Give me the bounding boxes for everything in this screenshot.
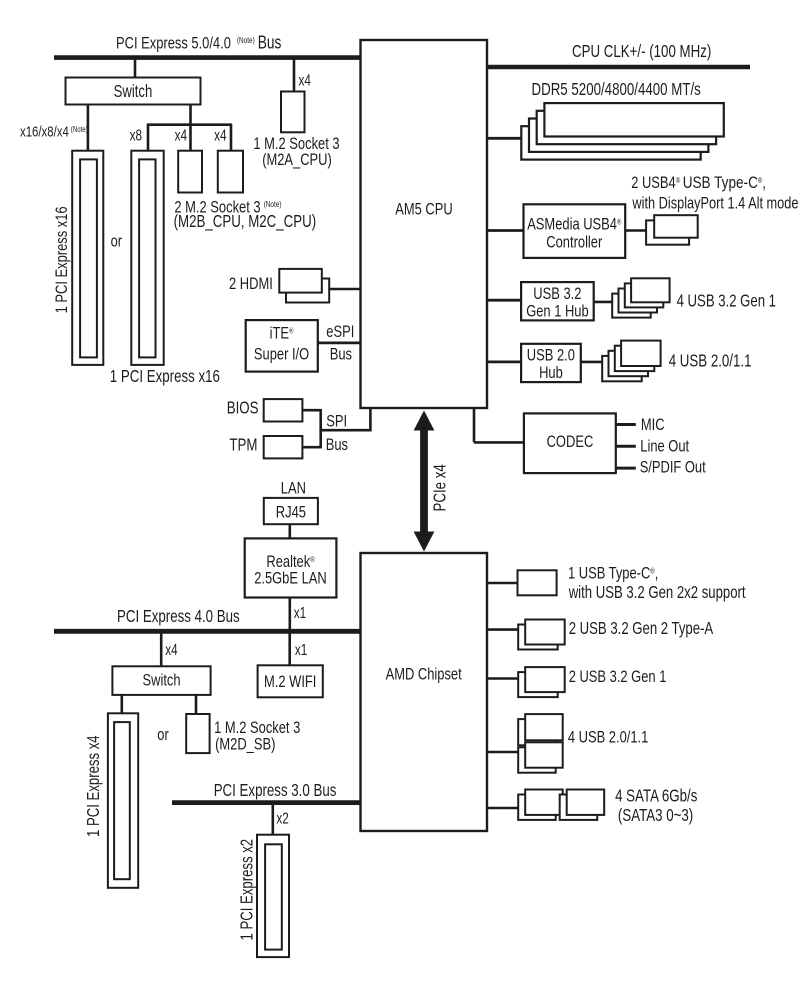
PCIe x2 slot outer — [257, 835, 289, 957]
svg-text:4 SATA 6Gb/s: 4 SATA 6Gb/s — [615, 786, 697, 806]
svg-text:USB 3.2: USB 3.2 — [533, 284, 581, 303]
svg-text:S/PDIF Out: S/PDIF Out — [640, 458, 706, 477]
svg-text:RJ45: RJ45 — [276, 503, 306, 522]
RJ45 box — [264, 498, 318, 524]
svg-text:x4: x4 — [175, 128, 188, 145]
wire chipset to SATA ports — [487, 807, 518, 810]
wire HDMI to CPU — [329, 288, 360, 291]
svg-text:MIC: MIC — [641, 415, 665, 434]
wire switch1 branch stem — [189, 105, 192, 127]
svg-text:Hub: Hub — [539, 363, 563, 382]
wire ASMedia to Type-C connectors — [625, 229, 646, 232]
switch box (upper) — [66, 78, 201, 105]
USB 3.2 Gen1 port back — [518, 672, 558, 697]
svg-text:iTE: iTE — [270, 323, 289, 342]
wire TPM to junction — [302, 446, 320, 449]
label 1 PCI Express x4 (vertical) — [83, 735, 103, 837]
svg-text:(SATA3 0~3): (SATA3 0~3) — [618, 805, 693, 825]
svg-text:Bus: Bus — [326, 435, 348, 454]
wire BIOS/TPM junction vertical — [319, 409, 322, 448]
wire SPI bus to CPU — [369, 408, 372, 432]
svg-text:2 USB 3.2 Gen 1: 2 USB 3.2 Gen 1 — [569, 667, 667, 686]
iTE Super I/O box — [246, 320, 318, 372]
label 1 PCI Express x2 (vertical) — [237, 839, 257, 941]
M.2 WIFI box — [258, 665, 323, 697]
svg-text:2 HDMI: 2 HDMI — [229, 274, 273, 293]
USB 3.2 Gen2 port back — [518, 625, 558, 650]
svg-text:,: , — [762, 173, 766, 192]
svg-text:x1: x1 — [295, 642, 307, 659]
svg-text:LAN: LAN — [281, 478, 306, 497]
svg-text:1 PCI Express x2: 1 PCI Express x2 — [237, 839, 257, 941]
PCIe x16 slot B inner — [139, 159, 155, 357]
wire bus1 to switch1 — [134, 58, 137, 79]
wire switch2 to M2D — [195, 695, 198, 715]
svg-text:,: , — [655, 563, 659, 582]
CPU box — [361, 40, 488, 408]
wire bus PCIe 4.0 (thick) — [54, 629, 361, 634]
svg-text:BIOS: BIOS — [227, 397, 259, 417]
USB 2.0 connector stack (4) — [602, 356, 642, 381]
wire bus2 to switch2 — [160, 631, 163, 667]
svg-text:AM5 CPU: AM5 CPU — [395, 199, 452, 218]
wire RJ45 to Realtek — [288, 524, 291, 538]
USB 3.2 Gen 1 Hub box — [521, 282, 594, 320]
svg-text:Switch: Switch — [114, 81, 153, 101]
svg-text:®: ® — [310, 555, 315, 564]
PCIe x2 slot inner — [265, 844, 282, 949]
svg-text:x4: x4 — [214, 128, 227, 145]
svg-text:or: or — [111, 231, 123, 250]
SATA port pair right — [560, 795, 598, 820]
CODEC box — [524, 413, 616, 473]
HDMI connector front — [279, 269, 322, 293]
HDMI connector back — [286, 279, 329, 303]
wire CPU to CODEC vertical — [473, 408, 476, 442]
DDR5 DIMM stack (4 modules) — [521, 126, 700, 159]
svg-text:x4: x4 — [299, 73, 312, 90]
wire switch1 to PCIe x16 slot A — [87, 105, 90, 152]
svg-text:x4: x4 — [165, 642, 178, 659]
svg-text:ASMedia USB4: ASMedia USB4 — [527, 214, 617, 233]
wire switch2 to PCIe x4 slot — [121, 695, 124, 714]
svg-text:(Note): (Note) — [237, 35, 255, 45]
svg-text:PCI Express 4.0 Bus: PCI Express 4.0 Bus — [117, 606, 240, 626]
label PCIe x4 (vertical) — [429, 464, 449, 512]
svg-text:1 PCI Express x4: 1 PCI Express x4 — [83, 735, 103, 837]
USB4 Type-C connector front — [654, 215, 698, 238]
svg-text:Switch: Switch — [143, 671, 181, 690]
Realtek 2.5GbE LAN box — [245, 538, 337, 597]
wire bus3 to PCIe x2 slot — [271, 803, 274, 835]
svg-text:SPI: SPI — [326, 411, 347, 430]
PCIe x16 slot A inner — [80, 159, 97, 357]
USB 3.2 Gen1 port front — [525, 667, 565, 692]
svg-text:AMD Chipset: AMD Chipset — [386, 665, 462, 684]
USB 2.0 port pair upper — [518, 719, 556, 745]
PCIe x16 slot A outer — [72, 151, 103, 365]
PCIe x4 slot outer — [108, 713, 138, 888]
svg-text:Bus: Bus — [258, 33, 282, 53]
wire branch to M2B (x4) — [189, 125, 192, 151]
wire bus PCIe 5.0/4.0 (thick) — [54, 55, 361, 60]
svg-text:®: ® — [289, 326, 294, 335]
USB Type-C port — [518, 570, 557, 595]
SATA port pair left — [518, 795, 556, 820]
ASMedia USB4 Controller box — [524, 204, 626, 258]
wire CPU to USB2.0 hub — [487, 360, 521, 363]
wire CPU CLK (thick) — [487, 65, 750, 69]
svg-text:CPU CLK+/- (100 MHz): CPU CLK+/- (100 MHz) — [572, 41, 711, 61]
wire CPU to USB3.2 hub — [487, 299, 521, 302]
svg-text:2 USB 3.2 Gen 2 Type-A: 2 USB 3.2 Gen 2 Type-A — [569, 618, 714, 638]
TPM box — [264, 436, 303, 458]
svg-text:CODEC: CODEC — [547, 432, 594, 451]
PCIe x4 slot inner — [114, 722, 130, 879]
svg-text:(M2B_CPU, M2C_CPU): (M2B_CPU, M2C_CPU) — [174, 211, 317, 232]
M.2 socket M2C box — [218, 151, 243, 193]
svg-text:Gen 1 Hub: Gen 1 Hub — [526, 301, 589, 320]
svg-text:1 USB Type-C: 1 USB Type-C — [568, 563, 650, 582]
wire bus PCIe 3.0 (thick) — [172, 800, 361, 805]
svg-text:Line Out: Line Out — [640, 436, 689, 455]
svg-text:Super I/O: Super I/O — [254, 345, 309, 364]
wire iTE to CPU (eSPI bus) — [318, 341, 361, 344]
AMD Chipset box — [361, 553, 488, 831]
USB 2.0 Hub box — [521, 344, 581, 382]
wire CODEC to Line Out — [616, 445, 636, 448]
svg-text:4 USB 3.2 Gen 1: 4 USB 3.2 Gen 1 — [677, 291, 776, 311]
wire branch to M2C (x4) — [230, 125, 233, 151]
svg-text:x16/x8/x4: x16/x8/x4 — [20, 124, 69, 141]
wire chipset to USB 2.0 ports — [487, 751, 518, 754]
svg-text:(M2D_SB): (M2D_SB) — [215, 735, 275, 754]
svg-text:USB Type-C: USB Type-C — [683, 173, 758, 192]
USB 2.0 port pair lower — [518, 747, 556, 772]
wire Realtek to bus2 — [288, 598, 291, 632]
svg-text:x1: x1 — [294, 605, 306, 622]
svg-text:1 PCI Express x16: 1 PCI Express x16 — [52, 206, 71, 313]
wire chipset to USB 3.2 Gen 2 ports — [487, 628, 518, 631]
svg-text:TPM: TPM — [229, 435, 257, 455]
svg-text:Controller: Controller — [546, 232, 602, 251]
wire bus1 to M2A — [293, 58, 296, 92]
svg-text:x2: x2 — [276, 810, 288, 827]
svg-text:M.2 WIFI: M.2 WIFI — [264, 672, 316, 691]
wire CODEC to MIC — [616, 423, 636, 426]
wire branch bar — [147, 123, 232, 126]
wire CPU to ASMedia — [487, 229, 524, 232]
svg-text:4 USB 2.0/1.1: 4 USB 2.0/1.1 — [568, 727, 648, 746]
switch box (lower) — [112, 666, 210, 695]
svg-text:(Note): (Note) — [264, 199, 282, 209]
svg-text:(M2A_CPU): (M2A_CPU) — [262, 150, 332, 169]
wire hub to USB2.0 stack — [581, 361, 602, 364]
wire chipset to USB 3.2 Gen 1 ports — [487, 677, 518, 680]
svg-text:®: ® — [676, 176, 681, 185]
svg-text:DDR5 5200/4800/4400 MT/s: DDR5 5200/4800/4400 MT/s — [532, 79, 701, 99]
svg-text:PCI Express 5.0/4.0: PCI Express 5.0/4.0 — [116, 34, 231, 53]
svg-text:PCIe x4: PCIe x4 — [429, 464, 449, 512]
PCIe x16 slot B outer — [131, 151, 163, 365]
wire chipset to Type-C port — [487, 582, 518, 585]
svg-text:2.5GbE LAN: 2.5GbE LAN — [254, 568, 327, 587]
svg-text:PCI Express 3.0 Bus: PCI Express 3.0 Bus — [214, 780, 337, 800]
svg-text:®: ® — [617, 217, 622, 226]
BIOS box — [264, 399, 303, 421]
wire CPU to DDR5 — [487, 137, 521, 140]
M.2 socket M2D box — [186, 714, 209, 753]
M.2 socket M2B box — [178, 151, 202, 193]
wire branch to slot B (x8) — [147, 125, 150, 151]
wire SPI bus horizontal — [319, 429, 370, 432]
svg-text:with DisplayPort 1.4 Alt mode: with DisplayPort 1.4 Alt mode — [632, 193, 799, 212]
svg-text:(Note): (Note) — [71, 125, 88, 134]
svg-text:4 USB 2.0/1.1: 4 USB 2.0/1.1 — [669, 351, 752, 371]
svg-text:USB 2.0: USB 2.0 — [527, 346, 575, 365]
wire hub to USB3.2 stack — [594, 301, 613, 304]
USB 3.2 connector stack (4) — [612, 294, 651, 318]
USB4 Type-C connector back — [646, 220, 689, 244]
label 1 PCI Express x16 (vertical) — [52, 206, 71, 313]
USB 3.2 Gen2 port front — [525, 620, 565, 645]
wire CODEC to S/PDIF — [616, 467, 636, 470]
wire bus2 to M.2 WIFI — [288, 631, 291, 666]
wire CPU to CODEC horizontal — [474, 441, 524, 444]
svg-text:or: or — [157, 725, 169, 744]
svg-text:with USB 3.2 Gen 2x2 support: with USB 3.2 Gen 2x2 support — [568, 582, 746, 602]
M.2 socket M2A box — [281, 92, 305, 133]
svg-text:1 PCI Express x16: 1 PCI Express x16 — [110, 366, 220, 386]
wire BIOS to junction — [302, 409, 320, 412]
svg-text:x8: x8 — [130, 128, 142, 145]
PCIe x4 double-headed arrow between CPU and chipset — [414, 411, 435, 552]
svg-text:Bus: Bus — [330, 345, 352, 364]
svg-text:2 USB4: 2 USB4 — [631, 173, 676, 192]
svg-text:eSPI: eSPI — [326, 322, 354, 341]
